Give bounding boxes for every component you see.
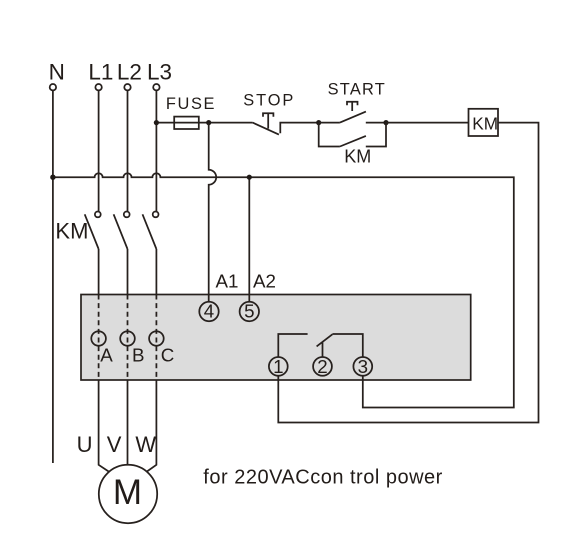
wire L3 vertical xyxy=(155,91,157,212)
svg-text:L2: L2 xyxy=(117,60,142,85)
svg-text:KM: KM xyxy=(55,219,88,244)
wire phase B dashed inside box xyxy=(127,295,129,381)
node junction fuse-A1 xyxy=(206,120,211,125)
node junction START-KM xyxy=(383,120,388,125)
node junction N-bus xyxy=(50,175,55,180)
svg-text:V: V xyxy=(107,432,122,457)
relay contact wire to terminal 3 xyxy=(332,334,362,357)
node junction bus-A2 xyxy=(247,175,252,180)
terminal A circle xyxy=(91,331,106,346)
svg-text:KM: KM xyxy=(472,113,498,133)
svg-text:B: B xyxy=(132,344,145,365)
svg-text:L1: L1 xyxy=(88,60,113,85)
terminal 2 circle xyxy=(313,357,332,376)
terminal C circle xyxy=(149,331,164,346)
svg-text:2: 2 xyxy=(317,356,327,377)
wire to coil xyxy=(386,122,469,124)
wire phase A dashed inside box xyxy=(98,295,100,381)
coil KM box xyxy=(469,109,499,136)
svg-text:A: A xyxy=(100,344,113,365)
svg-text:C: C xyxy=(161,344,175,365)
svg-text:4: 4 xyxy=(204,301,214,322)
wire coil to loop xyxy=(278,123,538,423)
wire phase C dashed inside box xyxy=(155,295,157,381)
svg-text:3: 3 xyxy=(358,356,368,377)
svg-text:KM: KM xyxy=(344,147,371,167)
pushbutton STOP blade xyxy=(253,123,279,135)
svg-text:START: START xyxy=(328,80,386,98)
svg-text:A1: A1 xyxy=(216,271,239,292)
contactor KM main contact L3 xyxy=(153,212,159,218)
terminal 1 circle xyxy=(269,357,288,376)
pushbutton STOP actuator xyxy=(263,113,273,128)
svg-text:FUSE: FUSE xyxy=(166,95,216,113)
wire A2 drop xyxy=(248,177,250,302)
svg-text:M: M xyxy=(113,473,142,512)
svg-text:A2: A2 xyxy=(253,271,276,292)
fuse FUSE xyxy=(174,122,209,124)
terminal 4 circle xyxy=(199,302,218,321)
wire L2 vertical xyxy=(127,91,129,212)
wire W output xyxy=(146,380,156,472)
pushbutton START blade xyxy=(340,112,366,123)
relay contact blade from terminal 2 xyxy=(317,334,333,357)
wire START right xyxy=(366,122,386,124)
svg-text:STOP: STOP xyxy=(243,92,295,110)
node L1 terminal xyxy=(95,84,101,90)
soft starter box xyxy=(81,295,471,381)
wire neutral bus with hops over L1 L2 L3 xyxy=(53,173,514,407)
wire U output xyxy=(99,380,110,472)
wire A1 drop with hop over bus xyxy=(209,123,217,302)
contactor KM main contact L1 xyxy=(95,212,101,218)
svg-text:1: 1 xyxy=(273,356,283,377)
contact KM auxiliary (hold-in) xyxy=(319,123,340,147)
contactor KM main contact L2 xyxy=(124,212,130,218)
terminal 5 circle xyxy=(240,302,259,321)
motor M circle xyxy=(99,465,157,523)
wire N vertical xyxy=(52,91,54,463)
terminal 3 circle xyxy=(353,357,372,376)
node L2 terminal xyxy=(124,84,130,90)
node N terminal xyxy=(50,84,56,90)
svg-text:5: 5 xyxy=(244,301,254,322)
svg-text:for 220VACcon trol power: for 220VACcon trol power xyxy=(203,467,443,489)
svg-text:W: W xyxy=(135,432,156,457)
wire V output xyxy=(127,380,129,465)
wire L1 vertical xyxy=(98,91,100,212)
svg-text:L3: L3 xyxy=(147,60,172,85)
node L3 terminal xyxy=(153,84,159,90)
wire L3 to fuse xyxy=(156,122,174,124)
pushbutton START actuator xyxy=(347,102,358,111)
svg-text:U: U xyxy=(77,432,93,457)
node junction L3-fuse xyxy=(154,120,159,125)
node junction STOP-START xyxy=(316,120,321,125)
wire to START xyxy=(319,122,340,124)
relay contact bracket from terminal 1 xyxy=(278,334,307,357)
terminal B circle xyxy=(120,331,135,346)
svg-text:N: N xyxy=(49,60,65,85)
pushbutton STOP fixed contact xyxy=(280,123,318,134)
wire fuse to STOP xyxy=(209,122,253,124)
